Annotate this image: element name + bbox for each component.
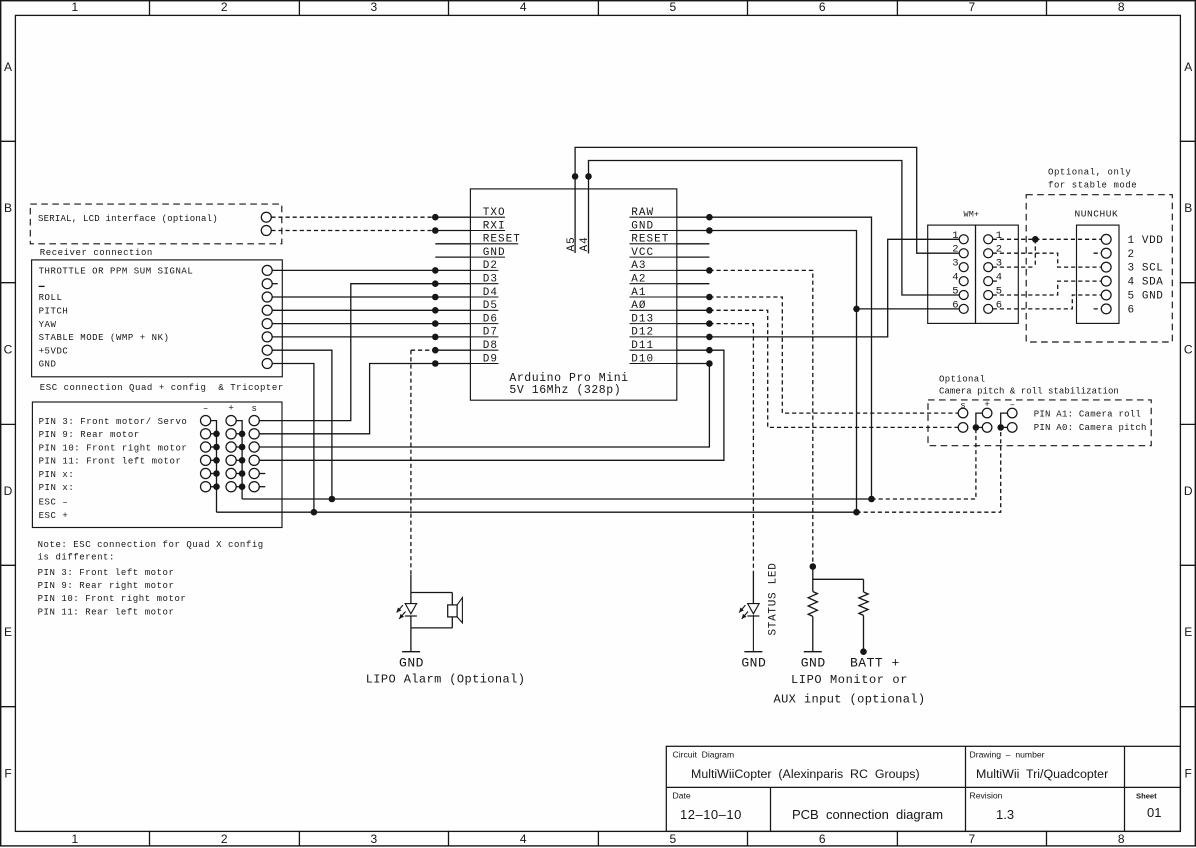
svg-text:RXI: RXI — [483, 220, 506, 232]
wire ESC+ rail — [217, 511, 857, 513]
svg-text:B: B — [1184, 201, 1192, 215]
connector box WM+ left — [928, 225, 976, 323]
svg-text:is different:: is different: — [38, 553, 115, 563]
wire STABLE MODE to D7 — [272, 336, 470, 338]
svg-text:PIN 9: Rear right motor: PIN 9: Rear right motor — [38, 581, 175, 591]
svg-text:+: + — [228, 404, 233, 414]
svg-text:3: 3 — [996, 258, 1002, 270]
svg-text:PIN x:: PIN x: — [39, 483, 75, 493]
svg-text:D: D — [4, 484, 13, 498]
svg-text:2: 2 — [221, 832, 228, 846]
svg-text:BATT +: BATT + — [850, 656, 900, 671]
ESC plus bus tap — [236, 446, 242, 448]
lipo divider top link — [812, 567, 814, 592]
U1 left pin name underlines — [470, 216, 505, 218]
wire D12 to WM+ pin 1 — [677, 239, 959, 337]
wire YAW to D6 — [272, 323, 470, 325]
zone tick marks top/bottom — [149, 1, 151, 16]
wire RAW to ESC- rail — [677, 217, 872, 499]
svg-text:for stable mode: for stable mode — [1048, 181, 1137, 191]
WM+ left column pin circles — [959, 235, 968, 244]
svg-text:4: 4 — [520, 832, 527, 846]
svg-text:D: D — [1184, 484, 1193, 498]
stub ESC s6 — [259, 486, 265, 488]
wire D8 to LIPO alarm (dashed) — [411, 349, 435, 351]
svg-text:3 SCL: 3 SCL — [1128, 263, 1164, 275]
svg-text:3: 3 — [370, 832, 377, 846]
svg-text:D8: D8 — [483, 340, 498, 352]
svg-text:7: 7 — [968, 0, 975, 14]
wire A3 to lipo divider (dashed) — [709, 270, 812, 566]
svg-text:YAW: YAW — [39, 320, 57, 330]
buzzer LS1 cone — [457, 598, 462, 623]
buzzer LS1 body — [448, 605, 457, 617]
svg-text:PIN 9: Rear motor: PIN 9: Rear motor — [39, 430, 140, 440]
wire A5 to WM+ pin 2 — [575, 147, 959, 253]
wire GND to ESC+ rail — [677, 231, 857, 513]
svg-text:6: 6 — [952, 299, 958, 311]
wire D11 to ESC s4 — [259, 350, 724, 460]
svg-text:4: 4 — [952, 272, 958, 284]
receiver channel 2 dash label — [39, 285, 45, 287]
svg-text:5: 5 — [669, 832, 676, 846]
IC U1 Arduino Pro Mini box — [470, 189, 676, 400]
wire PITCH to D5 — [272, 309, 470, 311]
svg-text:6: 6 — [819, 832, 826, 846]
wire TXD from serial (dashed) — [271, 216, 435, 218]
svg-text:PCB connection diagram: PCB connection diagram — [792, 807, 943, 822]
svg-text:Receiver connection: Receiver connection — [40, 248, 153, 258]
wire D10 to ESC s3 — [259, 364, 709, 448]
svg-text:ESC connection Quad + config: ESC connection Quad + config & Tricopter — [40, 383, 284, 393]
resistor R2 — [859, 592, 868, 615]
svg-text:GND: GND — [801, 656, 826, 671]
svg-text:6: 6 — [1128, 305, 1135, 317]
stub D13 solid lead — [677, 323, 710, 325]
svg-text:GND: GND — [741, 656, 766, 671]
svg-text:RAW: RAW — [631, 207, 654, 219]
ESC plus bus tap — [236, 459, 242, 461]
stub RESET left — [435, 243, 470, 245]
svg-text:2: 2 — [996, 244, 1002, 256]
svg-text:THROTTLE OR PPM SUM SIGNAL: THROTTLE OR PPM SUM SIGNAL — [39, 267, 194, 277]
svg-text:5V 16Mhz (328p): 5V 16Mhz (328p) — [509, 384, 621, 397]
svg-text:D3: D3 — [483, 274, 498, 286]
stub ESC s5 — [259, 473, 265, 475]
svg-text:PIN 11: Front left motor: PIN 11: Front left motor — [39, 457, 182, 467]
SERIAL pin circles — [261, 212, 271, 222]
svg-text:PIN 3: Front motor/ Servo: PIN 3: Front motor/ Servo — [39, 417, 188, 427]
svg-text:Revision: Revision — [970, 791, 1003, 801]
camera + column link row2 — [975, 420, 977, 427]
resistor R1 — [808, 592, 817, 617]
svg-text:D2: D2 — [483, 260, 498, 272]
svg-text:1: 1 — [996, 230, 1002, 242]
svg-text:A4: A4 — [579, 236, 591, 251]
svg-text:PIN 10: Front right motor: PIN 10: Front right motor — [38, 594, 187, 604]
svg-text:LIPO Alarm (Optional): LIPO Alarm (Optional) — [366, 673, 526, 687]
wire ESC- rail — [242, 498, 871, 500]
wire GND branch to WM+ pin 6 — [857, 308, 960, 310]
buzzer loop bottom wire — [411, 627, 452, 629]
NUNCHUK pin circles — [1101, 234, 1111, 244]
svg-text:8: 8 — [1118, 0, 1125, 14]
svg-text:A2: A2 — [631, 274, 646, 286]
svg-text:1: 1 — [71, 832, 78, 846]
svg-text:Drawing – number: Drawing – number — [970, 750, 1045, 760]
svg-text:A1: A1 — [631, 287, 646, 299]
svg-text:2: 2 — [221, 0, 228, 14]
svg-text:PIN A1: Camera roll: PIN A1: Camera roll — [1034, 410, 1141, 420]
svg-text:SERIAL, LCD interface (optiona: SERIAL, LCD interface (optional) — [38, 214, 218, 224]
wire ESC minus-column bus — [211, 421, 217, 513]
wire A0 to camera s2 (dashed) — [709, 310, 958, 427]
title block horizontal divider — [666, 786, 1180, 788]
wire A1 to camera s1 (dashed) — [709, 297, 958, 413]
svg-text:NUNCHUK: NUNCHUK — [1075, 208, 1119, 219]
svg-text:GND: GND — [631, 220, 654, 232]
svg-text:RESET: RESET — [483, 234, 521, 246]
title block vertical divider sheet column — [1124, 746, 1126, 831]
svg-text:3: 3 — [370, 0, 377, 14]
svg-text:2: 2 — [952, 244, 958, 256]
wire THROTTLE to D2 — [272, 269, 470, 271]
svg-text:ROLL: ROLL — [39, 293, 63, 303]
dashed wire WM+2R to NUNCHUK 3 SCL — [993, 253, 1102, 267]
svg-text:PIN 3: Front left motor: PIN 3: Front left motor — [38, 568, 175, 578]
svg-text:6: 6 — [819, 0, 826, 14]
title block vertical divider drawing-number column — [965, 746, 967, 831]
svg-text:MultiWiiCopter (Alexinparis: MultiWiiCopter (Alexinparis RC Groups) — [691, 767, 920, 781]
svg-text:D4: D4 — [483, 287, 498, 299]
ground symbol status led — [744, 651, 762, 653]
wire D9 to ESC s2 — [259, 364, 470, 434]
ground symbol lipo alarm — [402, 651, 420, 653]
junction dots — [432, 214, 439, 221]
svg-text:Optional, only: Optional, only — [1048, 167, 1131, 177]
svg-text:MultiWii Tri/Quadcopter: MultiWii Tri/Quadcopter — [976, 767, 1108, 781]
ESC minus bus tap — [211, 446, 217, 448]
svg-text:Note: ESC connection for Quad: Note: ESC connection for Quad X config — [38, 540, 264, 550]
svg-text:STATUS LED: STATUS LED — [768, 562, 780, 635]
svg-text:5: 5 — [952, 286, 958, 298]
svg-text:PIN 10: Front right motor: PIN 10: Front right motor — [39, 443, 188, 453]
wire ESC+ rail to camera - (dashed) — [857, 427, 1001, 512]
wire +5VDC to ESC- rail — [272, 350, 332, 499]
wire ROLL to D4 — [272, 296, 470, 298]
camera pin circles — [958, 408, 968, 418]
ESC plus bus tap — [236, 473, 242, 475]
LED D1 cathode lead — [410, 616, 412, 652]
ground symbol lipo divider — [804, 651, 822, 653]
stub A0 solid lead — [677, 309, 710, 311]
svg-text:2: 2 — [1128, 249, 1135, 261]
ESC pin circles 3 columns x 6 rows — [201, 416, 211, 426]
camera - column link row2 — [1000, 420, 1002, 427]
svg-text:D5: D5 — [483, 300, 498, 312]
svg-text:C: C — [1184, 343, 1193, 357]
LED D2 cathode lead — [752, 615, 754, 652]
svg-text:F: F — [4, 767, 11, 781]
title block outline — [666, 746, 1180, 831]
svg-text:D12: D12 — [631, 327, 654, 339]
svg-text:AØ: AØ — [631, 300, 646, 312]
ESC plus bus tap — [236, 433, 242, 435]
stub RESET right — [677, 243, 710, 245]
svg-text:F: F — [1185, 767, 1192, 781]
svg-text:Arduino Pro Mini: Arduino Pro Mini — [509, 372, 628, 385]
svg-text:E: E — [4, 625, 12, 639]
connector box SERIAL LCD interface (dashed) — [30, 204, 281, 244]
svg-text:1: 1 — [71, 0, 78, 14]
svg-text:A5: A5 — [566, 236, 578, 251]
svg-text:E: E — [1184, 625, 1192, 639]
wire RXI from serial (dashed) — [271, 230, 435, 232]
dashed wire WM+6R to NUNCHUK 5 GND — [993, 295, 1102, 309]
resistor R1 bottom lead — [812, 616, 814, 651]
wire D3 to ESC s1 — [259, 284, 470, 421]
svg-text:PITCH: PITCH — [39, 307, 69, 317]
buzzer loop top wire — [411, 592, 452, 594]
svg-text:C: C — [4, 343, 13, 357]
svg-text:4: 4 — [996, 272, 1002, 284]
stub A3 solid lead — [677, 269, 710, 271]
svg-text:D11: D11 — [631, 340, 654, 352]
stub NUNCHUK 2 — [1094, 252, 1102, 254]
svg-text:A: A — [4, 60, 12, 74]
svg-text:VCC: VCC — [631, 247, 654, 259]
svg-text:GND: GND — [39, 360, 57, 370]
wire D13 to status led (dashed) — [709, 324, 753, 575]
svg-text:A: A — [1184, 60, 1192, 74]
wire receiver GND to ESC+ rail — [272, 364, 314, 513]
stub NUNCHUK 6 — [1094, 308, 1102, 310]
svg-text:D13: D13 — [631, 313, 654, 325]
optional stable-mode dashed box — [1026, 195, 1172, 342]
WM+ right column pin circles — [984, 235, 993, 244]
svg-text:6: 6 — [996, 299, 1002, 311]
stub VCC right — [677, 256, 710, 258]
connector box ESC connection — [32, 402, 282, 528]
stub WM+4R — [993, 280, 1000, 282]
ESC plus bus tap — [236, 486, 242, 488]
svg-text:3: 3 — [952, 258, 958, 270]
svg-text:GND: GND — [399, 656, 424, 671]
receiver pin circles — [262, 265, 272, 275]
svg-text:D6: D6 — [483, 313, 498, 325]
svg-text:B: B — [4, 201, 12, 215]
svg-text:PIN A0: Camera pitch: PIN A0: Camera pitch — [1034, 423, 1147, 433]
buzzer loop right wire — [451, 593, 453, 605]
stub GND left — [435, 256, 470, 258]
svg-text:s: s — [251, 404, 256, 414]
svg-text:5 GND: 5 GND — [1128, 291, 1164, 303]
svg-text:RESET: RESET — [631, 234, 669, 246]
svg-text:D9: D9 — [483, 353, 498, 365]
svg-text:Circuit Diagram: Circuit Diagram — [673, 750, 735, 760]
svg-text:1 VDD: 1 VDD — [1128, 235, 1164, 247]
svg-text:8: 8 — [1118, 832, 1125, 846]
svg-text:LIPO Monitor or: LIPO Monitor or — [791, 673, 908, 687]
svg-text:1: 1 — [952, 230, 958, 242]
svg-text:Sheet: Sheet — [1136, 792, 1157, 801]
svg-text:01: 01 — [1147, 805, 1161, 820]
camera + column hook row1 — [976, 413, 983, 420]
svg-text:–: – — [203, 404, 208, 414]
connector box WM+ right — [976, 225, 1019, 323]
svg-text:D10: D10 — [631, 353, 654, 365]
svg-text:Optional: Optional — [939, 374, 985, 384]
svg-text:AUX input (optional): AUX input (optional) — [773, 692, 925, 706]
ESC minus bus tap — [211, 486, 217, 488]
svg-text:STABLE MODE (WMP + NK): STABLE MODE (WMP + NK) — [39, 333, 170, 343]
ESC minus bus tap — [211, 459, 217, 461]
svg-text:4: 4 — [520, 0, 527, 14]
svg-text:5: 5 — [996, 286, 1002, 298]
LED D2 status — [748, 604, 759, 614]
connector box NUNCHUK — [1077, 225, 1120, 323]
svg-text:5: 5 — [669, 0, 676, 14]
wire A4 to WM+ pin 5 — [589, 161, 960, 296]
dashed wire WM+5R to NUNCHUK 4 SDA — [993, 281, 1102, 295]
svg-text:ESC +: ESC + — [39, 511, 69, 521]
ESC minus bus tap — [211, 473, 217, 475]
wire ESC- rail to camera + (dashed) — [872, 427, 976, 499]
svg-text:PIN 11: Rear left motor: PIN 11: Rear left motor — [38, 607, 175, 617]
LED D1 lipo alarm — [405, 604, 416, 614]
svg-text:ESC –: ESC – — [39, 498, 69, 508]
optional camera stabilization dashed box — [928, 400, 1151, 446]
stub receiver row 2 — [272, 283, 278, 285]
U1 right pin name underlines — [630, 216, 677, 218]
stub A1 solid lead — [677, 296, 710, 298]
svg-text:12–10–10: 12–10–10 — [680, 807, 742, 822]
zone tick marks left/right — [1, 140, 16, 142]
svg-text:+5VDC: +5VDC — [39, 346, 69, 356]
ESC minus bus tap — [211, 433, 217, 435]
resistor R2 bottom lead — [863, 615, 865, 651]
svg-text:D7: D7 — [483, 327, 498, 339]
svg-text:1.3: 1.3 — [996, 807, 1014, 822]
dashed wire WM+1R to NUNCHUK 1 VDD — [993, 238, 1102, 240]
svg-text:Date: Date — [673, 791, 691, 801]
svg-text:Camera pitch & roll stabilizat: Camera pitch & roll stabilization — [939, 387, 1119, 397]
svg-text:A3: A3 — [631, 260, 646, 272]
svg-text:WM+: WM+ — [964, 209, 980, 219]
svg-text:TXO: TXO — [483, 207, 506, 219]
dashed wire WM+3R join VDD net — [993, 266, 1036, 268]
svg-text:PIN x:: PIN x: — [39, 470, 75, 480]
wire ESC plus-column bus — [236, 421, 242, 499]
svg-text:7: 7 — [968, 832, 975, 846]
title block vertical divider date cell — [770, 787, 772, 831]
connector box Receiver connection — [32, 260, 283, 377]
camera - column hook row1 — [1001, 413, 1008, 420]
stub A2 right — [677, 283, 710, 285]
svg-text:4 SDA: 4 SDA — [1128, 277, 1164, 289]
svg-text:GND: GND — [483, 247, 506, 259]
